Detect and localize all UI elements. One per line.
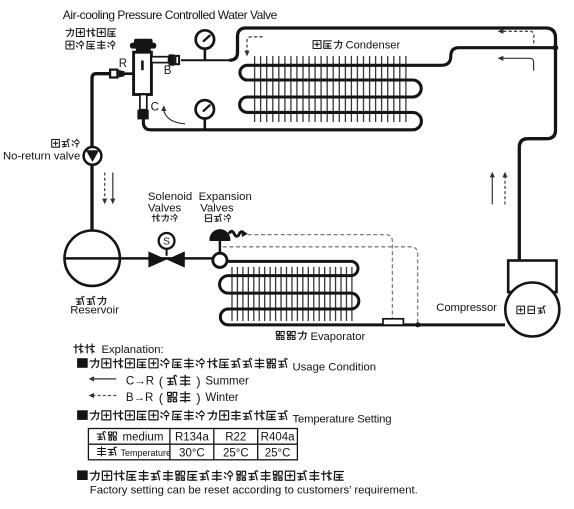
svg-text:(: ( xyxy=(159,390,164,405)
compressor housing top xyxy=(508,261,556,293)
svg-text:Condenser: Condenser xyxy=(346,39,401,51)
wire: R-port line down to reservoir xyxy=(92,74,110,231)
valve PCV cap (adjustment knob) xyxy=(130,39,156,53)
label condenser chinese xyxy=(313,40,342,48)
gauge G2 (pressure gauge) xyxy=(196,100,214,118)
svg-text:Usage Condition: Usage Condition xyxy=(293,361,377,373)
port C nut xyxy=(137,110,148,120)
arrow: summer flow hook top-right (solid, left) xyxy=(498,56,534,71)
wire: B-port to gauge-1 pipe xyxy=(181,59,231,61)
bullet 1 xyxy=(77,358,88,368)
label no-return chinese xyxy=(52,139,80,147)
expansion valve body xyxy=(213,253,227,267)
bullet 2 xyxy=(77,410,88,420)
svg-text:Evaporator: Evaporator xyxy=(311,331,366,343)
valve PCV stem indicator xyxy=(141,61,144,71)
svg-text:Temperature Setting: Temperature Setting xyxy=(293,413,392,425)
label valve chinese line1 xyxy=(66,28,116,36)
svg-text:30°C: 30°C xyxy=(179,447,205,459)
svg-text:Summer: Summer xyxy=(205,376,249,388)
arrow: curved flow arrow at C-port xyxy=(161,105,185,124)
expansion valve diaphragm dome xyxy=(210,230,231,241)
port R flare fitting xyxy=(110,70,117,78)
svg-text:R: R xyxy=(119,58,127,70)
bullet 1 chinese xyxy=(90,358,287,368)
wire: liquid line through reservoir to expansion valve xyxy=(65,257,212,260)
wire: condenser serpentine coil from riser to valve C-port xyxy=(143,48,553,130)
solenoid valve SV body xyxy=(148,251,184,267)
arrow: winter flow hook top-right (dashed, left) xyxy=(498,29,534,44)
port B flare fitting xyxy=(175,56,179,64)
svg-text:C→R: C→R xyxy=(126,376,154,388)
svg-text:(: ( xyxy=(159,374,164,389)
svg-text:25°C: 25°C xyxy=(265,447,291,459)
legend summer chinese xyxy=(167,375,190,385)
wire: hot-gas top pipe from B elbow to compressor discharge down right side xyxy=(230,28,556,262)
svg-text:C: C xyxy=(151,102,159,114)
sensing line 2 (dashed) equalizer to suction line xyxy=(223,247,418,324)
bullet 3 xyxy=(77,470,88,480)
svg-text:): ) xyxy=(196,374,200,389)
solenoid valve coil S xyxy=(159,233,175,249)
node: equalizer junction on suction line xyxy=(415,322,420,327)
label valve chinese line2 xyxy=(66,41,115,50)
table cell wendu chinese xyxy=(97,447,116,456)
label reservoir chinese xyxy=(76,296,106,305)
label shuoming chinese xyxy=(74,344,95,353)
no-return valve NRV xyxy=(84,147,102,165)
svg-text:Solenoid: Solenoid xyxy=(148,191,192,203)
svg-text:Valves: Valves xyxy=(148,202,182,214)
label solenoid chinese xyxy=(152,214,177,221)
label evaporator chinese xyxy=(276,331,306,340)
svg-text:B→R: B→R xyxy=(126,392,153,404)
svg-text:Reservoir: Reservoir xyxy=(70,305,119,317)
svg-text:R134a: R134a xyxy=(175,432,209,444)
sensing line 1 (dashed) from capillary to bulb xyxy=(248,235,393,319)
reservoir vessel xyxy=(65,231,120,286)
svg-text:25°C: 25°C xyxy=(223,447,249,459)
compressor body xyxy=(505,283,559,337)
svg-text:Air-cooling Pressure Controlle: Air-cooling Pressure Controlled Water Va… xyxy=(63,8,278,22)
svg-text:Factory setting can be reset a: Factory setting can be reset according t… xyxy=(90,485,418,497)
table cell jiezhi chinese xyxy=(97,431,116,440)
wire: evaporator serpentine coil and suction line to compressor xyxy=(220,261,505,325)
arrow: winter flow hook near condenser inlet (dashed, down) xyxy=(244,37,262,57)
arrow: summer flow down left (solid) xyxy=(110,173,115,205)
gauge G1 stem xyxy=(204,49,207,61)
table grid xyxy=(88,429,297,460)
svg-text:Compressor: Compressor xyxy=(436,302,497,314)
bullet 3 chinese xyxy=(90,471,343,481)
port B nut xyxy=(169,54,175,65)
legend arrow summer (solid) xyxy=(89,376,117,381)
condenser fins xyxy=(255,56,406,122)
port C neck xyxy=(140,95,147,110)
svg-text:medium: medium xyxy=(123,432,164,444)
svg-text:S: S xyxy=(163,237,170,248)
arrow: summer flow up right riser (solid) xyxy=(490,172,495,205)
gauge G2 stem xyxy=(204,119,207,130)
svg-text:): ) xyxy=(196,390,200,405)
valve PCV body xyxy=(134,52,152,94)
svg-text:B: B xyxy=(164,65,172,77)
port B tube xyxy=(151,57,168,63)
arrow: winter flow up right riser (dashed) xyxy=(502,172,507,205)
arrow: winter flow down left (dashed) xyxy=(102,173,107,205)
gauge G1 (pressure gauge) xyxy=(196,30,214,48)
expansion valve stem xyxy=(219,240,222,255)
svg-text:R22: R22 xyxy=(225,432,246,444)
sensing bulb on suction line xyxy=(383,319,403,325)
svg-text:No-return valve: No-return valve xyxy=(3,150,80,162)
svg-text:Valves: Valves xyxy=(200,202,234,214)
legend winter chinese xyxy=(168,392,190,402)
label expansion chinese xyxy=(205,214,230,222)
bullet 2 chinese xyxy=(90,411,287,421)
svg-text:Explanation:: Explanation: xyxy=(102,344,164,356)
svg-text:Expansion: Expansion xyxy=(199,191,252,203)
port R nut xyxy=(119,70,125,78)
solenoid valve coil stem xyxy=(166,249,168,256)
node: junction of condenser inlet with right riser xyxy=(553,45,558,50)
svg-text:Temperature: Temperature xyxy=(121,448,172,458)
expansion valve capillary squiggle xyxy=(229,230,248,237)
port R stub xyxy=(124,72,134,75)
legend arrow winter (dashed) xyxy=(89,393,117,398)
evaporator fins xyxy=(232,267,352,321)
label compressor chinese xyxy=(517,306,545,314)
svg-text:R404a: R404a xyxy=(261,432,295,444)
svg-text:Winter: Winter xyxy=(205,392,238,404)
